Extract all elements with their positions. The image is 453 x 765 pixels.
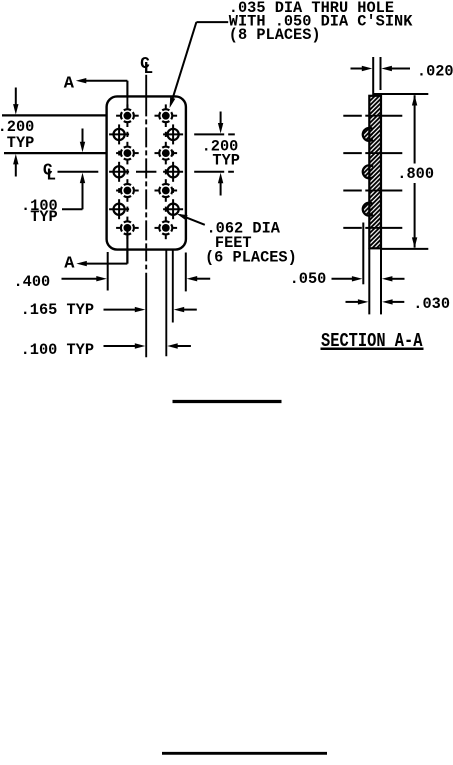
dimension .400: left arrow	[62, 276, 107, 281]
thru hole H6	[155, 179, 178, 202]
dimension .100 TYP left: top arrow	[80, 129, 85, 153]
dimension .200 TYP right: label	[202, 138, 240, 170]
extension line foot tip	[362, 223, 364, 285]
dimension .050: right arrow	[382, 276, 405, 281]
centerline symbol top	[140, 55, 153, 78]
dimension .200 TYP left: extension line row3	[4, 152, 106, 154]
note: feet callout text	[205, 219, 297, 266]
dimension .020: extension lines	[373, 57, 380, 95]
leader to foot F4	[177, 214, 205, 225]
dimension .165 TYP: right arrow	[174, 307, 197, 312]
section hole centerline row 1	[343, 115, 402, 117]
dimension .800: bottom extension line	[381, 248, 428, 250]
centerline vertical center	[145, 75, 147, 357]
svg-text:(6 PLACES): (6 PLACES)	[205, 248, 297, 266]
svg-text:TYP: TYP	[30, 208, 58, 226]
foot F5	[109, 199, 129, 219]
section arrow A top	[64, 74, 128, 96]
dimension .200 TYP right: bottom arrow	[218, 173, 223, 196]
figure caption rule upper	[173, 400, 282, 403]
thru hole H7	[116, 217, 139, 240]
svg-text:.030: .030	[413, 295, 450, 313]
foot F3	[109, 162, 129, 182]
dimension .200 TYP right: extension line row2	[194, 133, 235, 135]
dimension .200 TYP left: label	[0, 118, 34, 152]
dimension .100 TYP left: label	[21, 197, 58, 226]
foot bump B1	[363, 128, 373, 141]
section title SECTION A-A	[321, 330, 424, 352]
centerline left feet column	[118, 151, 120, 193]
note: thru hole callout text	[229, 0, 413, 44]
extension line bar right face	[380, 248, 382, 314]
svg-text:.050: .050	[290, 270, 327, 288]
thru hole H5	[116, 179, 139, 202]
svg-text:.800: .800	[397, 165, 434, 183]
dimension .800: dimension line with arrows	[412, 95, 417, 248]
centerline symbol left	[43, 161, 56, 184]
dimension .400: left extension line	[107, 252, 109, 291]
svg-text:L: L	[143, 60, 153, 78]
dimension .050: label and left arrow	[290, 270, 363, 288]
dimension .200 TYP left: bottom arrow	[13, 154, 18, 177]
dimension .020: right arrow	[381, 66, 410, 71]
foot bump B3	[363, 203, 373, 216]
section hole centerline row 3	[343, 152, 402, 154]
dimension .165 TYP: label and leader	[21, 301, 146, 319]
extension line bar left face	[368, 248, 370, 314]
section arrow A bottom	[64, 250, 127, 274]
dimension .100 TYP bottom: label and leader	[21, 341, 146, 359]
svg-text:L: L	[46, 167, 56, 185]
centerline left thru column / cutting plane	[126, 97, 128, 264]
dimension .020: left arrow	[351, 66, 373, 71]
foot bump B2	[363, 165, 373, 178]
centerline right feet column	[172, 151, 174, 323]
dimension .400: right arrow	[187, 276, 211, 281]
thru hole H3	[116, 142, 139, 165]
foot F6	[163, 199, 183, 219]
center cross	[136, 171, 156, 173]
svg-text:.020: .020	[417, 62, 453, 80]
dimension .200 TYP right: top arrow	[218, 112, 223, 134]
dimension .200 TYP right: extension line row4	[194, 171, 234, 173]
dimension .200 TYP left: top arrow	[13, 88, 18, 115]
figure caption rule bottom	[162, 752, 327, 755]
dimension .800: top extension line	[374, 93, 429, 95]
svg-text:.400: .400	[14, 273, 51, 291]
svg-text:A: A	[64, 74, 75, 93]
dimension .200 TYP left: extension line row1	[2, 114, 106, 116]
section bar body (hatched)	[369, 96, 381, 249]
thru hole H8	[155, 217, 178, 240]
centerline right thru column	[165, 132, 168, 356]
svg-text:TYP: TYP	[212, 152, 240, 170]
section hole centerline row 7	[343, 227, 402, 229]
svg-text:A: A	[64, 255, 75, 274]
component body outline (top view)	[107, 96, 186, 249]
svg-text:(8 PLACES): (8 PLACES)	[229, 26, 321, 44]
svg-text:.165 TYP: .165 TYP	[21, 301, 94, 319]
svg-text:TYP: TYP	[7, 134, 35, 152]
section hole centerline row 5	[343, 190, 402, 192]
svg-text:.100 TYP: .100 TYP	[21, 341, 94, 359]
thru hole H2	[155, 104, 178, 127]
centerline row4 left extension	[58, 171, 99, 173]
dimension .030: left arrow	[346, 299, 369, 304]
dimension .100 TYP bottom: right arrow	[167, 343, 191, 348]
foot F4	[163, 162, 183, 182]
thru hole H1	[116, 104, 139, 127]
dimension .030: right arrow and label	[382, 295, 450, 313]
dimension .100 TYP left: bottom arrow and elbow	[62, 173, 85, 210]
dimension .400: right extension line	[185, 253, 187, 292]
foot F2	[163, 124, 183, 144]
foot F1	[109, 124, 129, 144]
leader to thru hole H2	[170, 22, 229, 108]
thru hole H4	[155, 142, 178, 165]
